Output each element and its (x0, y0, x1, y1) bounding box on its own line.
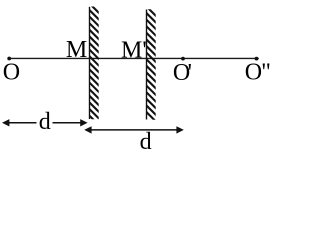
svg-text:M': M' (121, 37, 147, 63)
mirror M hatching (86, 0, 102, 128)
dimension arrow d2 right head (176, 126, 183, 133)
svg-text:d: d (140, 129, 152, 154)
mirror M' vertical line (146, 10, 148, 120)
svg-text:M: M (66, 37, 87, 63)
svg-text:d: d (39, 109, 51, 135)
svg-text:O': O' (173, 60, 192, 86)
dimension arrow d1 right head (80, 119, 87, 126)
dimension arrow d1 left segment (8, 122, 37, 124)
svg-text:O: O (3, 59, 20, 85)
mirror M vertical line (89, 7, 91, 119)
dimension arrow d2 line (88, 129, 180, 131)
dimension arrow d1 right segment (53, 122, 82, 124)
point O'' dot (255, 57, 259, 61)
dimension arrow d1 left head (2, 119, 9, 126)
axis line O to O'' (9, 57, 259, 59)
point O' dot (181, 57, 185, 61)
svg-text:O": O" (245, 60, 271, 86)
point O dot (7, 57, 11, 61)
mirror M' hatching (143, 3, 159, 125)
dimension arrow d2 left head (84, 126, 91, 133)
